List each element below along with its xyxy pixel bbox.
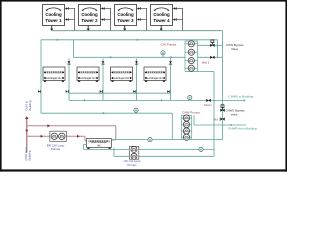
chiller CH-2 xyxy=(77,67,99,82)
CW building supply pipe xyxy=(27,124,116,127)
svg-text:Cooling: Cooling xyxy=(81,12,98,17)
svg-text:Centrifugal CH 2: Centrifugal CH 2 xyxy=(78,76,98,80)
CW pumps manifold xyxy=(185,41,214,72)
svg-text:Centrifugal CH 3: Centrifugal CH 3 xyxy=(112,76,132,80)
BR pump connector xyxy=(85,136,87,141)
tower riser pipe 3 xyxy=(137,7,147,31)
CHWR from building pipe xyxy=(194,115,246,126)
BR CW pump A xyxy=(51,133,57,139)
chiller branch pipe 2 xyxy=(100,59,105,101)
svg-text:Tower 2: Tower 2 xyxy=(81,18,98,23)
svg-text:Centrifugal CH 4: Centrifugal CH 4 xyxy=(145,76,165,80)
chiller branch pipe 1 xyxy=(66,59,71,101)
tower CT-4 outlet stub xyxy=(160,26,163,32)
HX 1 label xyxy=(214,118,220,122)
svg-text:Mod 2: Mod 2 xyxy=(202,60,210,64)
svg-text:Tower 1: Tower 1 xyxy=(45,18,62,23)
CHW pump P-8 xyxy=(181,134,191,140)
HX loop sensor S5 xyxy=(199,147,203,151)
CW pump P-2 xyxy=(185,49,198,55)
chiller CH-1 xyxy=(43,67,65,82)
svg-text:CHWS to Building: CHWS to Building xyxy=(229,95,254,99)
CW collection pipe under towers xyxy=(52,30,223,32)
CHWS Bypass Valve label xyxy=(226,108,246,116)
HX CH Loop Pumps label xyxy=(124,159,141,167)
cooling tower CT-1 xyxy=(43,5,65,26)
svg-text:Cooling: Cooling xyxy=(117,12,134,17)
svg-text:Pumps: Pumps xyxy=(127,163,137,167)
svg-text:CHWR from Building: CHWR from Building xyxy=(228,126,257,130)
CW drop to lower header xyxy=(73,40,75,58)
HX CHWS pipe xyxy=(112,139,223,141)
CWS header pipe xyxy=(41,38,218,41)
BR CW pumps bracket xyxy=(50,131,67,141)
Mod 1 label xyxy=(204,103,212,107)
svg-text:Valve: Valve xyxy=(231,112,238,116)
CHWS header pipe xyxy=(69,99,246,102)
svg-text:Cooling: Cooling xyxy=(153,12,170,17)
tower riser pipe 4 xyxy=(173,7,183,31)
tower CT-1 outlet stub xyxy=(50,26,53,32)
HX loop pipe lower xyxy=(114,148,214,157)
CHW Pumps label xyxy=(182,111,200,115)
left CW drop pipe xyxy=(40,40,42,113)
CWS bypass valve xyxy=(210,40,214,47)
svg-text:Mod 1: Mod 1 xyxy=(204,103,212,107)
CHWS sensor S2 xyxy=(188,96,192,101)
svg-text:CHW Pumps: CHW Pumps xyxy=(182,111,200,115)
CW Pumps label xyxy=(161,43,177,47)
svg-text:Centrifugal CH 1: Centrifugal CH 1 xyxy=(44,76,64,80)
HX loop sensor S4 xyxy=(148,138,152,142)
heat exchanger HX xyxy=(87,139,112,149)
HX loop pipe upper xyxy=(84,145,215,150)
HX CH pump A xyxy=(131,146,137,152)
CWS Bypass Valve label xyxy=(226,43,244,51)
CWS to building riser xyxy=(25,116,28,152)
CHWR header pipe xyxy=(41,112,172,140)
svg-text:CW Pumps: CW Pumps xyxy=(161,43,177,47)
CW pump P-1 xyxy=(185,41,198,47)
tower CT-2 outlet stub xyxy=(87,26,90,32)
tower riser pipe 2 xyxy=(101,7,111,31)
cooling tower CT-4 xyxy=(151,5,173,26)
svg-text:Building: Building xyxy=(28,150,32,160)
chiller CH-3 xyxy=(111,67,133,82)
CW pump P-4 xyxy=(185,65,198,71)
CWS to Building label xyxy=(25,100,32,110)
svg-text:Valve: Valve xyxy=(231,47,239,51)
CHW pump P-6 xyxy=(181,121,191,127)
svg-text:Cooling: Cooling xyxy=(45,12,62,17)
svg-text:HX: HX xyxy=(97,145,101,148)
svg-text:Tower 3: Tower 3 xyxy=(117,18,134,23)
CHW pump P-7 xyxy=(181,128,191,134)
left branch arrow xyxy=(38,90,41,93)
CW right pipe segment xyxy=(198,56,223,58)
chiller branch pipe 4 xyxy=(167,59,172,101)
lower CW header pipe xyxy=(74,56,186,59)
CHWS bypass valve xyxy=(220,105,224,112)
CHWR sensor S3 xyxy=(134,108,138,113)
svg-text:Pumps: Pumps xyxy=(51,147,61,151)
CWS bypass pipe xyxy=(198,44,223,46)
svg-text:HX 1: HX 1 xyxy=(214,118,220,122)
CW drop to heat exchanger xyxy=(112,126,116,140)
CHW pumps manifold xyxy=(181,115,191,139)
CHWS valve V3 xyxy=(206,99,210,102)
CW header corner riser xyxy=(217,40,219,58)
condenser sensor S1 xyxy=(161,51,165,57)
cooling tower CT-2 xyxy=(79,5,101,26)
HX CH pump B xyxy=(131,153,137,159)
frame border xyxy=(0,0,287,172)
CHW upper header pipe xyxy=(69,92,171,94)
chiller CH-4 xyxy=(144,67,166,82)
HX 1 valve xyxy=(220,117,224,120)
CW building return pipe xyxy=(27,135,85,138)
BR CW Loop Pumps label xyxy=(47,143,65,151)
svg-text:Tower 4: Tower 4 xyxy=(153,18,170,23)
HX loop riser A xyxy=(213,72,215,157)
CWR from Building label xyxy=(24,147,31,161)
Mod 2 label xyxy=(202,60,210,64)
svg-text:Building: Building xyxy=(28,100,32,110)
chiller branch pipe 3 xyxy=(133,59,138,101)
BR CW pump B xyxy=(59,133,65,139)
CHWS to Building label xyxy=(229,95,254,99)
CHWR from Building label xyxy=(228,126,257,130)
tower riser pipe 1 xyxy=(65,7,75,31)
cooling tower CT-3 xyxy=(115,5,137,26)
CW valve V2 xyxy=(210,56,214,59)
CHW pump P-5 xyxy=(181,115,191,121)
tower CT-3 outlet stub xyxy=(123,26,126,32)
HX CH pumps bracket xyxy=(129,146,138,159)
long right riser xyxy=(222,31,224,140)
CW pump P-3 xyxy=(185,58,198,64)
